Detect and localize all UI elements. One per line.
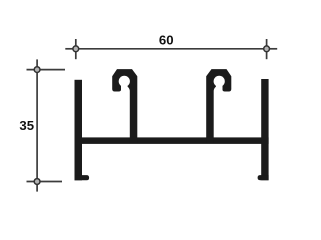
svg-text:35: 35 (19, 118, 34, 133)
dimension marker left-top (27, 59, 66, 72)
svg-text:60: 60 (159, 32, 174, 47)
aluminium profile section (75, 69, 269, 180)
profile left wall (75, 80, 83, 181)
dimension marker top-left (65, 39, 78, 59)
dimension marker left-bottom (27, 179, 63, 192)
profile right foot (258, 175, 269, 180)
profile right wall (261, 79, 268, 180)
dimension marker top-right (264, 39, 278, 59)
profile left foot (75, 175, 90, 180)
profile hook left (glazing hook) (112, 69, 137, 143)
profile hook right (glazing hook, mirrored) (206, 69, 231, 143)
dimension line 60 (horizontal, top) (76, 48, 267, 50)
profile web (horizontal) (75, 137, 269, 144)
dimension line 35 (vertical, left) (36, 70, 38, 182)
